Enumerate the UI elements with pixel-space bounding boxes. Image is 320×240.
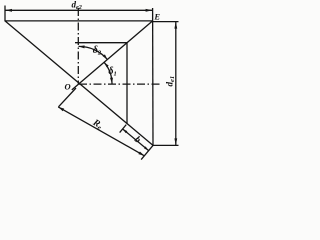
svg-text:E: E [153, 11, 160, 21]
extension line bottom for d_e1 [153, 144, 179, 146]
arrow d_e1 bottom [174, 138, 177, 145]
arrow delta1 at axis [110, 78, 113, 84]
extension line left of d_e2 [4, 6, 6, 22]
dimension line d_e2 [5, 9, 153, 11]
gear 2 outer edge (top) [5, 20, 153, 22]
gear 2 inner tooth-end line [75, 42, 127, 44]
dimension line b [123, 129, 149, 151]
arrow delta1 at OE [104, 62, 109, 67]
svg-text:de2: de2 [72, 0, 82, 11]
arrow left d_e2 [5, 9, 12, 12]
gear 1 outer edge / extension (vertical at E) [152, 8, 154, 145]
gear 1 inner tooth-end line [126, 43, 128, 124]
pitch line A: gear2 left cone line through O to gear1 bottom cone line [5, 21, 153, 145]
angle delta2 arc [79, 46, 108, 59]
arrow R_e end [138, 152, 144, 156]
svg-text:δ2: δ2 [93, 45, 102, 57]
arrow delta2 at OE [103, 54, 108, 59]
arrow right d_e2 [146, 9, 153, 12]
extension line top for d_e1 [153, 21, 179, 23]
dimension line d_e1 [175, 22, 177, 146]
angle delta1 arc [104, 62, 112, 83]
pitch line OE: from E through O with short extension [72, 21, 153, 90]
svg-text:Re: Re [90, 117, 104, 131]
arrow delta2 at axis [79, 45, 85, 48]
dimension line R_e [58, 107, 144, 156]
R_e extension cap at O [59, 88, 77, 107]
arrow b end [144, 146, 149, 150]
R_e outer cap at heel [141, 145, 153, 159]
gear 1 axis (horizontal dash-dot) [79, 83, 160, 85]
svg-text:de1: de1 [165, 76, 177, 87]
svg-text:δ1: δ1 [108, 66, 116, 78]
arrow R_e start [58, 107, 64, 111]
arrow b start [123, 129, 128, 133]
svg-text:O: O [65, 82, 71, 92]
gear 2 axis (vertical dash-dot) [77, 8, 79, 84]
b inner extension tick [120, 125, 127, 133]
arrow d_e1 top [174, 22, 177, 29]
